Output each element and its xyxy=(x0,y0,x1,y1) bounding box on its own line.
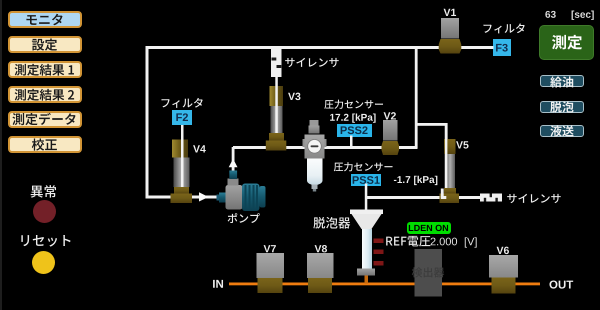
wire: main liquid line IN to OUT (orange) xyxy=(229,283,540,286)
text 測定データ xyxy=(12,113,75,125)
alarm lamp (dark red) xyxy=(33,200,56,223)
text モニタ xyxy=(26,14,62,26)
text F3 xyxy=(496,44,508,52)
text ポンプ xyxy=(228,213,260,223)
wire: left riser xyxy=(146,46,149,199)
text [V] xyxy=(465,237,477,247)
text 異常 xyxy=(31,185,56,198)
text フィルタ xyxy=(162,98,203,108)
window left edge xyxy=(0,0,2,310)
valve V3 xyxy=(266,77,287,151)
silencer right of V5 xyxy=(480,194,502,202)
text V7 xyxy=(264,245,276,252)
silencer above valve V3 xyxy=(271,47,282,77)
text PSS2 xyxy=(341,126,368,134)
text PSS1 xyxy=(353,176,380,184)
wire: branch to valve V5 xyxy=(415,123,448,190)
text 63 xyxy=(545,11,555,18)
wire: V5 to right silencer xyxy=(459,196,481,199)
text 給油 xyxy=(550,76,573,87)
text V4 xyxy=(193,145,206,152)
wire: PSS2 sensing tap xyxy=(350,136,353,148)
text IN xyxy=(213,280,223,288)
sidebar button 測定結果 2 xyxy=(8,86,82,103)
pressure sensor tag PSS2 box xyxy=(337,124,372,137)
air filter regulator xyxy=(303,120,327,192)
text OUT xyxy=(549,280,573,288)
text V6 xyxy=(497,247,509,254)
wire: deaerator drain stub (orange) xyxy=(365,276,369,284)
pump inlet fitting xyxy=(217,193,227,203)
text V1 xyxy=(444,9,456,16)
valve V6 xyxy=(489,255,518,294)
valve V4 xyxy=(171,125,193,203)
side button 液送 xyxy=(540,125,584,137)
text 圧力センサー xyxy=(324,100,383,109)
text 測定結果 2 xyxy=(15,89,75,101)
pressure sensor tag PSS1 box xyxy=(351,174,381,187)
valve V1 xyxy=(439,18,462,54)
flow arrow up from pump xyxy=(229,159,238,167)
deaerator (defoamer) xyxy=(350,210,383,276)
text V3 xyxy=(288,93,300,100)
wire: elbow up into V5 from deaerator line xyxy=(441,189,447,200)
valve V8 xyxy=(307,253,334,293)
wire: bottom left run to valve V4 elbow xyxy=(146,196,176,199)
text 設定 xyxy=(32,39,57,51)
valve V7 xyxy=(257,253,285,293)
filter tag F3 box xyxy=(493,39,511,56)
sidebar button 校正 xyxy=(8,136,82,153)
text 圧力センサー xyxy=(334,162,393,171)
text 脱泡 xyxy=(550,101,573,112)
filter tag F2 box xyxy=(172,110,192,125)
reset lamp (yellow) xyxy=(32,251,55,274)
wire: PSS1 sensing tap down to deaerator xyxy=(365,184,368,211)
valve V2 xyxy=(382,120,400,155)
wire: deaerator top to valve V5 bottom xyxy=(366,196,444,199)
wire: top supply run from left riser to valve V1 and filter F3 xyxy=(146,46,494,49)
detector box xyxy=(415,249,443,297)
text 2.000 xyxy=(431,238,458,246)
wire: mid pressure run pump to V2 to junction xyxy=(233,146,418,149)
deaerator level marks (red) xyxy=(374,239,384,266)
sidebar button 測定データ xyxy=(8,111,82,128)
sidebar button 測定結果 1 xyxy=(8,61,82,78)
text LDEN ON xyxy=(409,225,448,231)
text サイレンサ xyxy=(507,194,560,203)
wire: pump outlet riser xyxy=(232,147,235,173)
side button 給油 xyxy=(540,75,584,87)
text -1.7 [kPa] xyxy=(394,176,437,185)
side button 脱泡 xyxy=(540,101,584,113)
text 17.2 [kPa] xyxy=(330,113,375,122)
sidebar button モニタ xyxy=(8,11,82,28)
text 脱泡器 xyxy=(313,217,350,229)
flow arrow into pump xyxy=(199,192,209,201)
text 測定結果 1 xyxy=(15,64,74,76)
text フィルタ xyxy=(484,23,525,33)
text 検出器 xyxy=(412,267,445,277)
text リセット xyxy=(21,235,70,247)
pump motor xyxy=(242,184,266,212)
text V5 xyxy=(456,141,468,148)
text V2 xyxy=(384,112,396,119)
text REF電圧 xyxy=(386,236,430,247)
text サイレンサ xyxy=(285,58,338,67)
wire: right riser from top run down to mid run xyxy=(415,47,418,148)
text 液送 xyxy=(550,125,573,136)
text V8 xyxy=(315,245,327,252)
text F2 xyxy=(176,113,188,121)
pump body xyxy=(226,171,243,210)
measure button 測定 xyxy=(539,25,594,60)
text 校正 xyxy=(32,138,57,150)
wire: V4 elbow to pump inlet xyxy=(189,196,219,199)
LDEN ON indicator box xyxy=(407,222,451,234)
sidebar button 設定 xyxy=(8,36,82,53)
text 測定 xyxy=(552,35,582,50)
valve V5 xyxy=(440,123,460,203)
text [sec] xyxy=(572,11,594,20)
